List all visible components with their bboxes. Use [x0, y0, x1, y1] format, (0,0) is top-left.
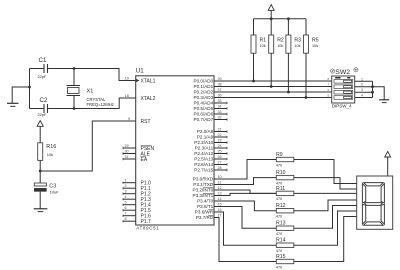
svg-text:P2.7/A15: P2.7/A15 [194, 168, 213, 173]
wire R14 to display [294, 211, 357, 245]
SW2 switch element 1 [334, 80, 353, 84]
svg-text:P2.2/A10: P2.2/A10 [194, 140, 213, 145]
ground (left) [7, 103, 19, 106]
svg-text:27: 27 [218, 161, 222, 165]
svg-text:R10: R10 [276, 170, 286, 176]
node junction left rail / ground tap [28, 86, 31, 89]
svg-text:38: 38 [218, 83, 222, 87]
U1 pin XTAL1 name + clock marker [136, 78, 155, 84]
node junction R5/bus [305, 96, 308, 99]
wire RST net to pin 9 [40, 121, 136, 171]
U1 pin P0.5 stub [214, 108, 227, 110]
svg-text:10k: 10k [294, 44, 300, 48]
svg-text:P2.6/A14: P2.6/A14 [194, 162, 213, 167]
U1 pin P2.5 stub [214, 158, 227, 160]
U1 pin P1.3 stub [123, 198, 136, 200]
wire P3.0 to resistor row [214, 160, 276, 180]
node junction R2/bus [270, 85, 273, 88]
svg-text:4: 4 [125, 195, 127, 199]
svg-text:470: 470 [276, 249, 282, 253]
crystal X1 [67, 86, 114, 108]
svg-text:25: 25 [218, 150, 222, 154]
svg-text:10uF: 10uF [50, 189, 59, 194]
svg-text:R2: R2 [277, 38, 284, 44]
resistor R10 [276, 170, 294, 185]
svg-text:32: 32 [218, 116, 222, 120]
svg-text:P3.6/WR: P3.6/WR [195, 210, 214, 215]
svg-text:16: 16 [218, 208, 222, 212]
svg-text:470: 470 [276, 215, 282, 219]
svg-text:P1.7: P1.7 [141, 219, 152, 225]
svg-text:R13: R13 [276, 221, 286, 227]
svg-text:39: 39 [218, 77, 222, 81]
svg-text:23: 23 [218, 139, 222, 143]
svg-text:SW2: SW2 [335, 69, 350, 76]
node junction C1/X1 top [73, 67, 76, 70]
svg-text:P2.5/A13: P2.5/A13 [194, 157, 213, 162]
svg-text:3: 3 [125, 190, 127, 194]
svg-text:11: 11 [218, 181, 222, 185]
node junction SW2 rail row2 [371, 85, 374, 88]
svg-text:9: 9 [128, 117, 130, 121]
U1 pin P0.7 stub [214, 119, 227, 121]
svg-text:10k: 10k [260, 44, 266, 48]
wire C3 bottom lead [39, 191, 41, 208]
wire VCC top rail [254, 18, 307, 20]
svg-text:21: 21 [218, 128, 222, 132]
svg-text:U1: U1 [136, 68, 144, 75]
node junction SW2 rail row3 [371, 91, 374, 94]
capacitor C2 [38, 97, 48, 117]
svg-text:1: 1 [125, 179, 127, 183]
svg-text:37: 37 [218, 88, 222, 92]
U1 pin P1.5 stub [123, 209, 136, 211]
wire C3 top lead [39, 171, 41, 183]
U1 pin P2.1 stub [214, 136, 227, 138]
U1 pin ALE stub [123, 153, 136, 155]
IC U1 body AT89C51 [136, 76, 214, 225]
svg-text:FREQ=12MHz: FREQ=12MHz [87, 102, 114, 107]
svg-text:24: 24 [218, 144, 222, 148]
wire P3.1 to resistor row [214, 178, 276, 185]
svg-text:P3.3/INT1: P3.3/INT1 [193, 193, 214, 198]
svg-text:P2.4/A12: P2.4/A12 [194, 151, 213, 156]
wire P3.7 to resistor row [214, 218, 276, 262]
svg-text:10k: 10k [47, 152, 53, 157]
svg-text:10k: 10k [277, 44, 283, 48]
svg-text:470: 470 [276, 265, 282, 269]
svg-text:P3.0/RXD: P3.0/RXD [193, 177, 214, 182]
svg-text:28: 28 [218, 166, 222, 170]
SW2 switch element 3 [334, 90, 353, 94]
U1 pin P1.6 stub [123, 215, 136, 217]
svg-text:470: 470 [276, 232, 282, 236]
wire SW2 ground rail vertical [372, 81, 374, 97]
wire C1 top rail to XTAL1 [30, 69, 136, 81]
svg-text:22pF: 22pF [38, 74, 47, 79]
svg-text:8: 8 [125, 217, 127, 221]
switch SW2 reference label [331, 68, 359, 76]
U1 pin P1.2 stub [123, 193, 136, 195]
svg-text:P3.1/TXD: P3.1/TXD [193, 182, 214, 187]
svg-text:P2.0/A8: P2.0/A8 [197, 129, 214, 134]
svg-text:P0.1/AD1: P0.1/AD1 [194, 84, 214, 89]
capacitor C3 [34, 183, 59, 194]
resistor R16 [38, 143, 56, 161]
display segment F (upper left) [362, 184, 365, 203]
svg-text:470: 470 [276, 163, 282, 167]
wire P3.6 to resistor row [214, 212, 276, 245]
svg-text:R11: R11 [276, 186, 285, 192]
svg-text:P0.3/AD3: P0.3/AD3 [194, 95, 214, 100]
svg-text:29: 29 [125, 144, 129, 148]
svg-text:6: 6 [125, 206, 127, 210]
svg-text:P0.0/AD0: P0.0/AD0 [194, 79, 214, 84]
svg-text:P0.2/AD2: P0.2/AD2 [194, 90, 214, 95]
svg-text:EA: EA [141, 157, 148, 163]
U1 pin P0.4 stub [214, 102, 227, 104]
U1 pin P2.0 stub [214, 131, 227, 133]
svg-text:RST: RST [141, 119, 151, 125]
svg-text:P2.1/A9: P2.1/A9 [197, 135, 214, 140]
wire P0.0 to SW2 [214, 80, 332, 82]
node junction rail/R3 [287, 17, 290, 20]
U1 pin PSEN stub [123, 147, 136, 149]
display segment C (lower right) [381, 204, 384, 224]
svg-text:P0.7/AD7: P0.7/AD7 [194, 117, 214, 122]
svg-text:P3.5/T1: P3.5/T1 [197, 204, 214, 209]
svg-text:R1: R1 [260, 38, 267, 44]
resistor R2 [269, 19, 284, 87]
U1 pin P2.3 stub [214, 147, 227, 149]
svg-text:P0.6/AD6: P0.6/AD6 [194, 112, 214, 117]
wire P0.2 to SW2 [214, 91, 332, 93]
svg-text:P3.7/RD: P3.7/RD [196, 215, 214, 220]
svg-text:13: 13 [218, 192, 222, 196]
wire X1 top lead [73, 69, 75, 86]
svg-text:31: 31 [125, 155, 129, 159]
wire ground branch [12, 87, 29, 103]
svg-text:P3.2/INT0: P3.2/INT0 [193, 188, 214, 193]
resistor R14 [276, 238, 294, 253]
svg-text:R14: R14 [276, 238, 286, 244]
wire P0.3 to SW2 [214, 97, 332, 99]
svg-text:X1: X1 [87, 89, 94, 95]
display DS1 7-segment body [357, 176, 393, 229]
U1 pin P1.1 stub [123, 187, 136, 189]
svg-text:2: 2 [361, 83, 363, 87]
resistor R5 [304, 19, 319, 98]
U1 pin P1.4 stub [123, 204, 136, 206]
svg-text:10: 10 [218, 175, 222, 179]
resistor R15 [276, 254, 294, 269]
wire R10 to display [294, 178, 357, 189]
svg-text:10k: 10k [312, 44, 318, 48]
svg-text:22pF: 22pF [38, 112, 47, 117]
svg-text:3: 3 [361, 88, 363, 92]
svg-text:14: 14 [218, 197, 222, 201]
display segment B (upper right) [381, 184, 384, 203]
display segment G (middle) [364, 203, 382, 206]
wire R13 to display [294, 206, 357, 229]
resistor R11 [276, 186, 294, 201]
svg-text:R5: R5 [312, 38, 319, 44]
resistor R1 [251, 19, 266, 81]
wire left rail C1-C2 [29, 69, 31, 109]
ground (below C3) [34, 209, 48, 212]
svg-text:P3.4/T0: P3.4/T0 [197, 199, 214, 204]
wire SW2 rail to ground [373, 87, 385, 100]
U1 pin P1.0 stub [123, 182, 136, 184]
U1 pin P2.4 stub [214, 153, 227, 155]
switch SW2 body [332, 76, 355, 103]
svg-text:C1: C1 [39, 57, 47, 64]
node junction R1/bus [252, 80, 255, 83]
svg-text:36: 36 [218, 94, 222, 98]
svg-text:19: 19 [125, 77, 129, 81]
svg-text:4: 4 [361, 94, 363, 98]
U1 pin P2.7 stub [214, 169, 227, 171]
svg-text:22: 22 [218, 133, 222, 137]
SW2 switch element 4 [334, 96, 353, 100]
wire P3.3 to resistor row [214, 193, 276, 195]
resistor R3 [286, 19, 301, 92]
wire SW2 pin 1 to ground rail [355, 80, 373, 82]
svg-text:34: 34 [218, 105, 222, 109]
svg-text:R16: R16 [46, 144, 56, 150]
svg-text:15: 15 [218, 203, 222, 207]
resistor R13 [276, 221, 294, 236]
svg-text:26: 26 [218, 155, 222, 159]
wire P3.4 to resistor row [214, 201, 276, 211]
wire SW2 pin 2 to ground rail [355, 86, 373, 88]
svg-text:AT89C51: AT89C51 [136, 226, 159, 231]
svg-text:2: 2 [125, 184, 127, 188]
svg-text:12: 12 [218, 186, 222, 190]
svg-text:R12: R12 [276, 203, 286, 209]
U1 pin P0.6 stub [214, 113, 227, 115]
wire SW2 pin 4 to ground rail [355, 97, 373, 99]
power VCC arrow (pull-ups) [268, 5, 274, 19]
svg-text:R9: R9 [276, 152, 283, 158]
ground (right of SW2) [379, 100, 389, 103]
resistor R12 [276, 203, 294, 218]
node junction C2/X1 bottom [73, 107, 76, 110]
U1 pin EA stub [123, 158, 136, 160]
node junction rail/R2 [270, 17, 273, 20]
svg-text:XTAL1: XTAL1 [141, 78, 156, 84]
wire X1 bottom lead [73, 96, 75, 109]
node junction R3/bus [287, 91, 290, 94]
U1 pin P2.2 stub [214, 142, 227, 144]
svg-text:5: 5 [125, 201, 127, 205]
svg-text:DIPSW_4: DIPSW_4 [332, 104, 352, 109]
svg-text:17: 17 [218, 214, 222, 218]
node junction R16/C3/RST [39, 170, 42, 173]
svg-text:30: 30 [125, 150, 129, 154]
svg-text:C3: C3 [49, 183, 56, 189]
wire C2 row to XTAL2 [30, 98, 136, 109]
wire SW2 pin 3 to ground rail [355, 91, 373, 93]
svg-text:33: 33 [218, 110, 222, 114]
svg-text:35: 35 [218, 99, 222, 103]
wire R16 bottom to node [39, 160, 41, 171]
svg-text:1: 1 [361, 77, 363, 81]
power VCC arrow (reset) [37, 121, 43, 143]
svg-text:P0.5/AD5: P0.5/AD5 [194, 106, 214, 111]
svg-text:P2.3/A11: P2.3/A11 [195, 146, 214, 151]
wire R9 to display [294, 160, 357, 184]
display segment D (bottom) [364, 222, 384, 225]
svg-text:P0.4/AD4: P0.4/AD4 [194, 101, 214, 106]
wire P3.5 to resistor row [214, 207, 276, 229]
U1 pin P1.7 stub [123, 220, 136, 222]
svg-text:R15: R15 [276, 254, 286, 260]
resistor R9 [276, 152, 294, 167]
wire P0.1 to SW2 [214, 86, 332, 88]
power VCC arrow (display) [385, 151, 391, 176]
wire R15 to display [294, 217, 357, 262]
svg-text:470: 470 [276, 181, 282, 185]
svg-text:XTAL2: XTAL2 [141, 96, 156, 102]
svg-text:R3: R3 [294, 38, 301, 44]
display segment E (lower left) [362, 204, 365, 224]
SW2 switch element 2 [334, 85, 353, 89]
SW2 ON markings [335, 77, 340, 79]
wire R12 to display [294, 200, 357, 211]
capacitor C1 [38, 57, 48, 79]
svg-text:7: 7 [125, 212, 127, 216]
svg-text:470: 470 [276, 197, 282, 201]
wire P3.2 to resistor row [214, 190, 276, 193]
display segment A (top) [364, 183, 384, 186]
svg-text:18: 18 [125, 94, 129, 98]
svg-text:C2: C2 [40, 97, 48, 104]
wire R11 to display [294, 192, 357, 194]
U1 pin P2.6 stub [214, 164, 227, 166]
